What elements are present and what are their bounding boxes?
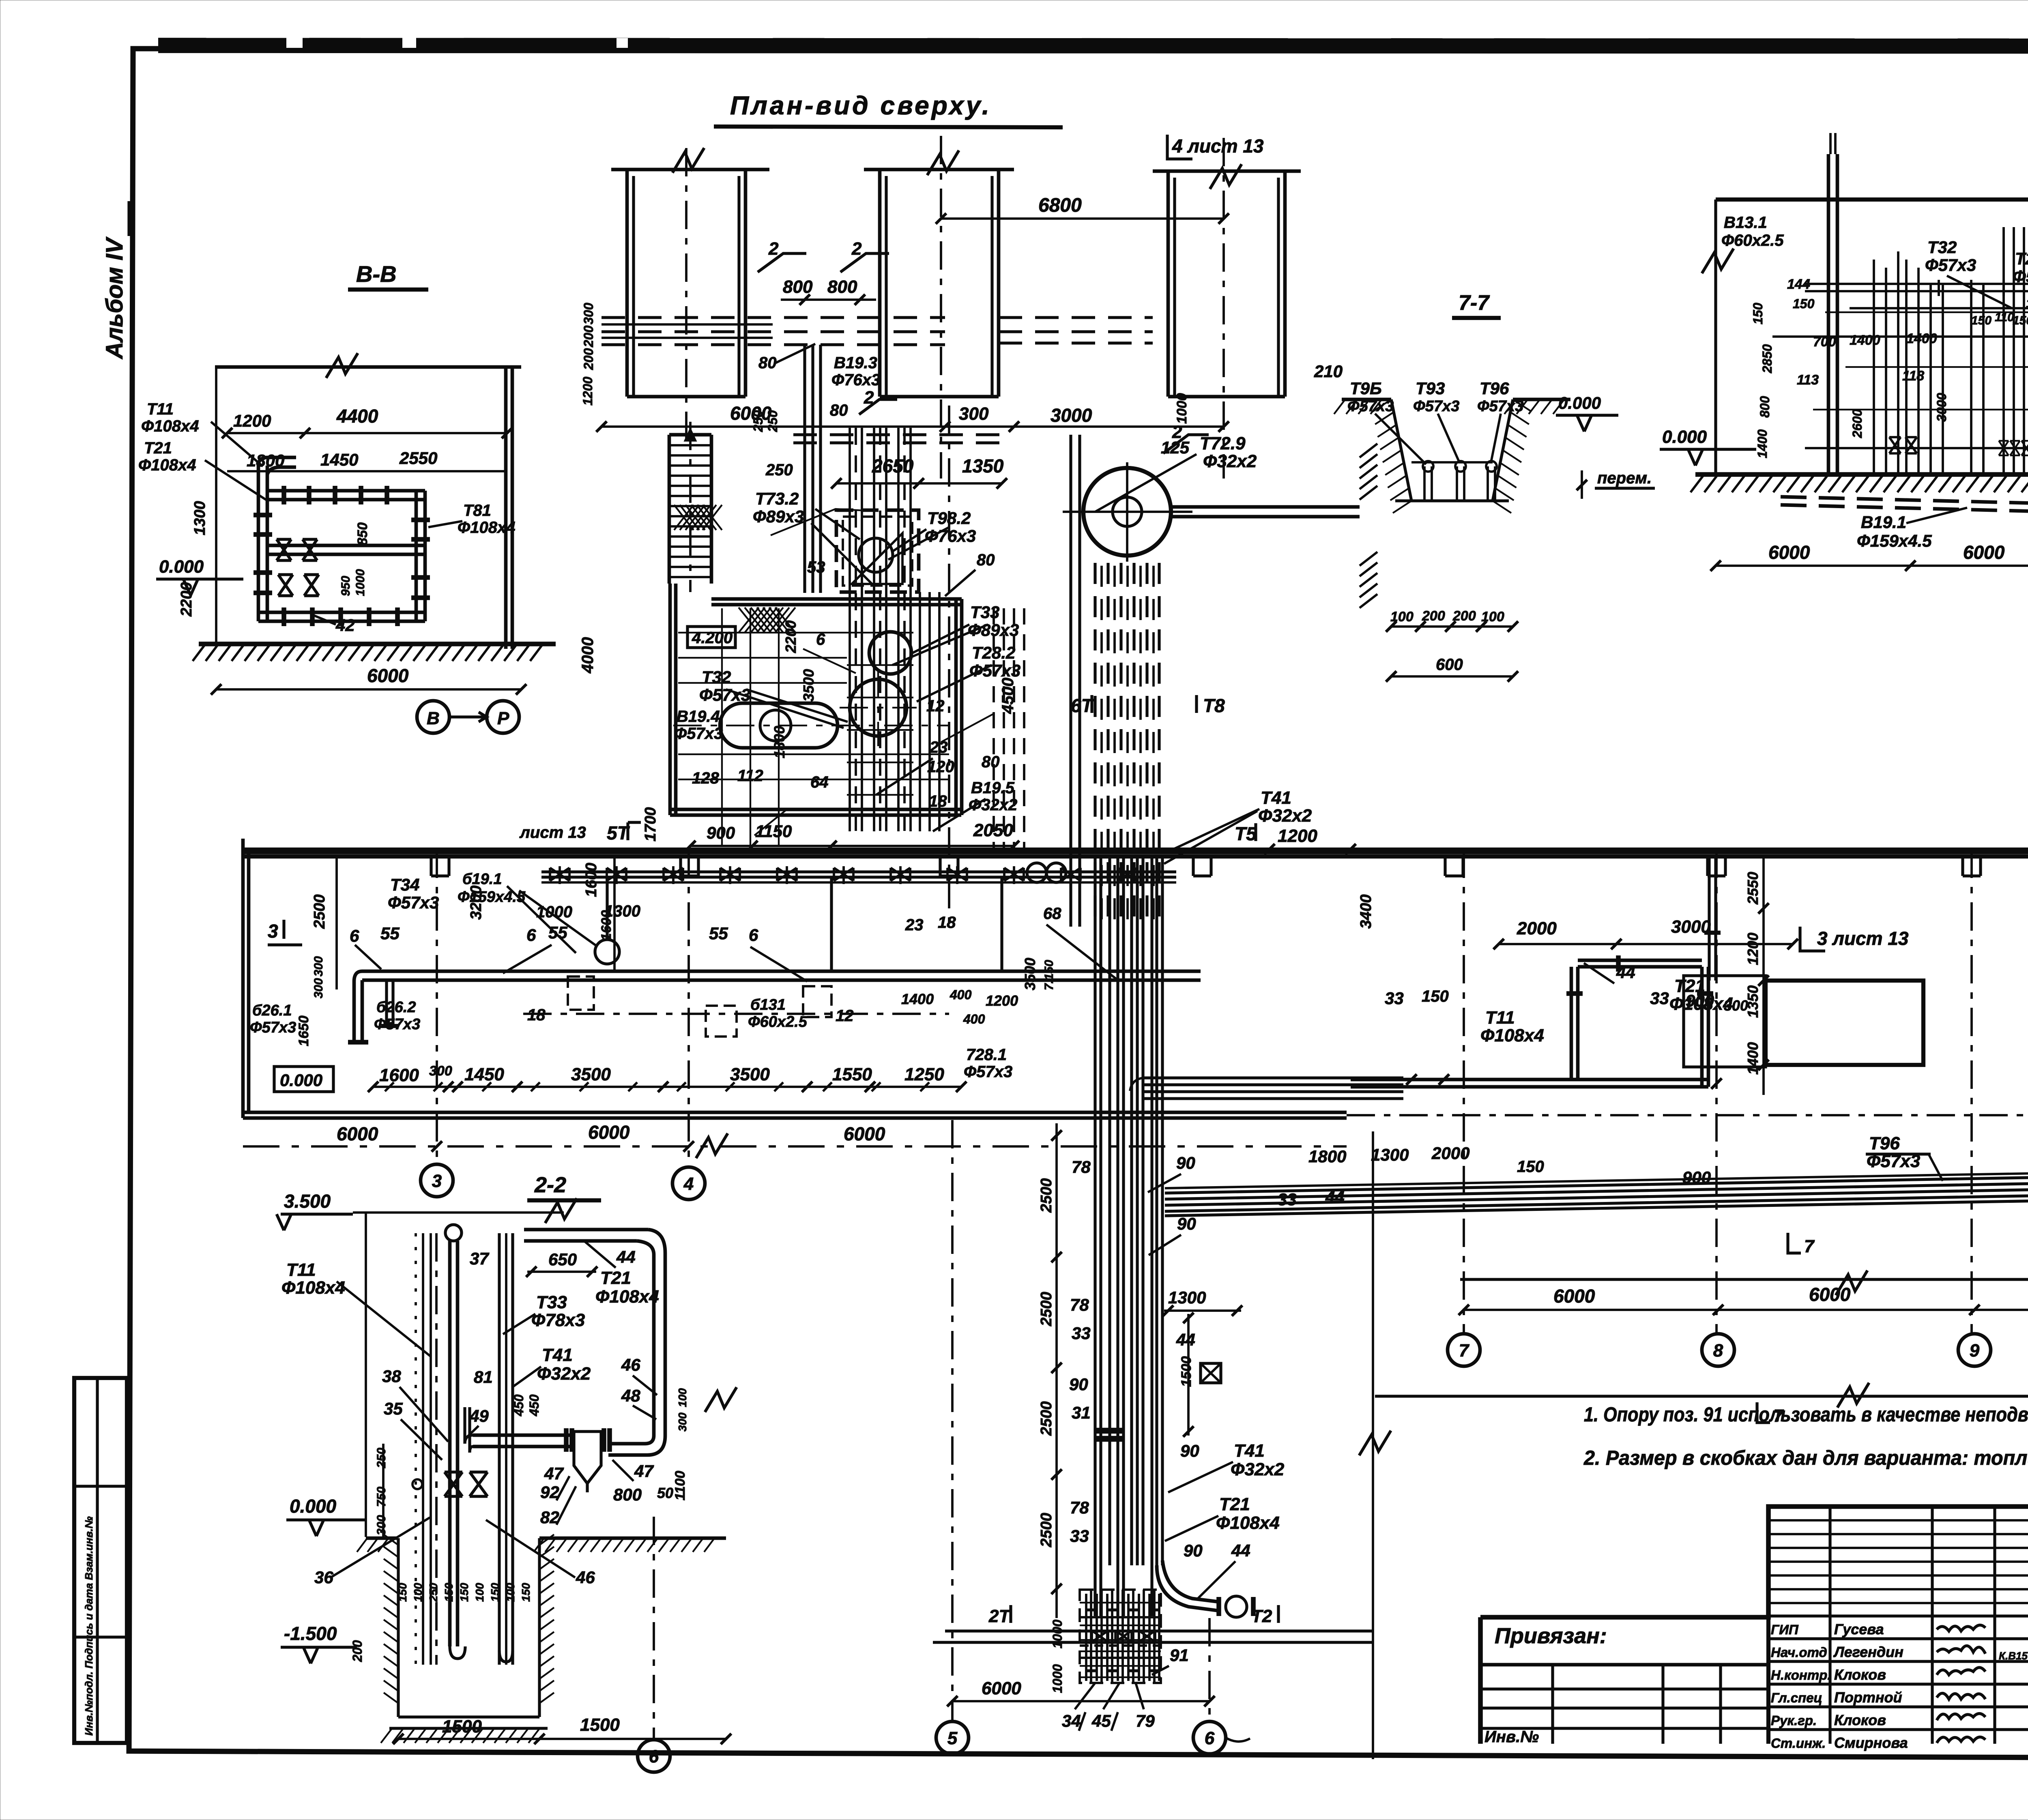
wing bundle extra line 2: [1165, 1171, 2028, 1188]
s22 T41 leader: [513, 1367, 541, 1387]
svg-text:150: 150: [396, 1583, 409, 1602]
svg-text:Т34: Т34: [390, 875, 419, 894]
svg-text:Портной: Портной: [1834, 1689, 1902, 1706]
pipe loop left riser a: [1570, 967, 1573, 1081]
valve band valves: [550, 868, 569, 881]
svg-text:Нач.отд: Нач.отд: [1771, 1645, 1827, 1660]
svg-text:1000: 1000: [1050, 1620, 1065, 1648]
section B-B label underline: [348, 288, 428, 292]
axis A1 break: [672, 148, 704, 173]
bb leader scrawl 3: [941, 714, 994, 742]
svg-text:В19.4: В19.4: [677, 708, 720, 725]
column marks on wall: [431, 856, 449, 876]
svg-text:33: 33: [1650, 989, 1669, 1008]
svg-text:0.000: 0.000: [290, 1496, 337, 1517]
svg-text:Ф159х4.5: Ф159х4.5: [1857, 531, 1932, 550]
axis B dashdot: [1347, 1114, 2028, 1116]
s11 extra verticals: [1905, 260, 1908, 474]
svg-text:Т72.9: Т72.9: [1200, 434, 1246, 453]
s77 dim ticks: [1386, 621, 1396, 632]
svg-text:6: 6: [526, 925, 536, 944]
B-B dim tick c: [502, 428, 512, 438]
svg-text:300: 300: [312, 956, 325, 977]
bb leader scrawl 1: [771, 509, 872, 535]
svg-text:К.В15: К.В15: [1999, 1650, 2028, 1662]
svg-text:В19.3: В19.3: [834, 354, 877, 372]
bb ext vline3: [778, 608, 780, 846]
svg-text:12: 12: [836, 1007, 854, 1025]
svg-text:В13.1: В13.1: [1724, 214, 1767, 232]
svg-text:1550: 1550: [832, 1065, 872, 1084]
s77 pipe stub 1: [1423, 466, 1426, 500]
svg-text:1350: 1350: [962, 455, 1004, 476]
leader 91: [1152, 1666, 1169, 1675]
axis arrow between circles: [449, 712, 487, 722]
s22 pit left hatch: [384, 1535, 398, 1545]
s77 level tick: [1581, 470, 1583, 499]
svg-text:Ф57х3: Ф57х3: [674, 725, 723, 743]
B-B bottom dim ticks: [211, 684, 221, 695]
svg-text:150: 150: [2013, 314, 2028, 327]
bb ext vline2: [750, 608, 751, 846]
svg-text:850: 850: [355, 522, 370, 545]
svg-text:Ф159х4.5: Ф159х4.5: [458, 889, 526, 906]
svg-text:113: 113: [1797, 372, 1819, 388]
wing t21 riser from wall: [1708, 856, 1710, 981]
long leader 6: [933, 799, 986, 831]
svg-text:48: 48: [621, 1386, 640, 1405]
top border thick band: [158, 45, 2028, 46]
svg-text:Т33: Т33: [536, 1292, 567, 1312]
svg-text:Ф108х4: Ф108х4: [595, 1287, 659, 1307]
top band gap 1: [286, 37, 303, 48]
svg-text:80: 80: [982, 753, 1000, 771]
svg-text:Т5: Т5: [1235, 823, 1257, 844]
s11 inner pipes: [1873, 260, 1875, 474]
svg-text:Ф57х3: Ф57х3: [1477, 398, 1523, 415]
axis line A2: [940, 136, 942, 479]
section 2-2 underline: [527, 1198, 601, 1202]
svg-text:1. Опору поз. 91 использовать: 1. Опору поз. 91 использовать в качестве…: [1584, 1403, 2028, 1426]
B-B left extension line: [215, 367, 217, 643]
s22 filter vessel: [574, 1432, 601, 1483]
svg-text:1650: 1650: [296, 1015, 312, 1046]
sig grid vline 3: [1993, 1507, 1996, 1744]
room left wall inner: [674, 584, 678, 815]
svg-text:44: 44: [1616, 963, 1635, 982]
s22 pit bottom line2: [389, 1727, 548, 1730]
svg-text:Р: Р: [497, 708, 509, 728]
long leader 8: [1164, 811, 1257, 864]
svg-text:3: 3: [268, 921, 278, 942]
svg-text:Т28.2: Т28.2: [2015, 249, 2028, 268]
grid circle 5: [936, 1721, 969, 1754]
T73.2 leader: [815, 509, 860, 539]
svg-text:1200: 1200: [1744, 933, 1761, 965]
deaer bundle extra dashed: [1100, 566, 1103, 925]
svg-text:2000: 2000: [1431, 1144, 1469, 1163]
axis A3 break: [1210, 164, 1242, 189]
s22 bottom ticks: [393, 1734, 404, 1744]
svg-text:35: 35: [384, 1399, 403, 1418]
crosshatch patch 2: [739, 607, 759, 633]
svg-text:800: 800: [1757, 396, 1772, 418]
svg-text:300: 300: [375, 1515, 388, 1535]
label T11 leader: [211, 422, 263, 466]
svg-text:б131: б131: [750, 996, 786, 1013]
b19.1 leader: [519, 891, 596, 946]
pipe loop top a: [1578, 959, 1702, 962]
svg-text:81: 81: [474, 1367, 493, 1386]
grid circle 4: [672, 1167, 705, 1200]
svg-text:400: 400: [963, 1012, 985, 1026]
left margin table row line 1: [74, 1485, 127, 1487]
svg-text:1450: 1450: [320, 450, 358, 469]
svg-text:90: 90: [1180, 1441, 1199, 1460]
valve band pipe b: [541, 876, 1176, 878]
manifold inner dash: [1080, 1644, 1161, 1647]
s22 dim line 650: [527, 1271, 596, 1273]
B-B top line break: [326, 353, 358, 378]
privyazan col 1: [1551, 1665, 1554, 1744]
bb extra flanges: [847, 632, 913, 633]
svg-text:4: 4: [683, 1174, 694, 1194]
column footing 1 right wall: [744, 170, 748, 397]
leader 6a: [355, 945, 381, 969]
manifold cross a: [1080, 1616, 1161, 1618]
svg-text:2000: 2000: [1517, 919, 1557, 938]
manifold ladder: [1080, 1602, 1161, 1603]
svg-text:2200: 2200: [782, 620, 799, 653]
svg-text:2650: 2650: [872, 455, 914, 476]
svg-text:1250: 1250: [904, 1065, 944, 1084]
svg-text:9: 9: [1970, 1341, 1980, 1361]
svg-text:Инв.№подл. Подпись и дата Вз: Инв.№подл. Подпись и дата Взам.инв.№: [83, 1516, 95, 1736]
column footing 2 right wall: [997, 170, 1001, 397]
room top wall inner: [711, 603, 962, 607]
pipe loop right riser a: [1700, 967, 1704, 1087]
svg-text:80: 80: [830, 401, 848, 419]
svg-text:68: 68: [1043, 905, 1061, 923]
svg-text:6000: 6000: [1809, 1284, 1851, 1305]
dashed pipe row 1: [602, 316, 945, 319]
svg-text:1400: 1400: [901, 991, 934, 1007]
support square run: [1201, 1363, 1221, 1383]
svg-text:6000: 6000: [337, 1123, 378, 1144]
svg-text:450: 450: [511, 1394, 526, 1417]
svg-text:150: 150: [1517, 1158, 1544, 1176]
stair rungs: [669, 444, 711, 446]
bend flange b: [1251, 1597, 1256, 1616]
wall hatch right a: [1360, 444, 1377, 457]
svg-text:Ф108х4: Ф108х4: [281, 1278, 345, 1298]
svg-text:6000: 6000: [588, 1122, 630, 1143]
svg-text:300: 300: [312, 978, 325, 998]
svg-text:7.150: 7.150: [1042, 960, 1056, 990]
svg-text:Смирнова: Смирнова: [1834, 1734, 1908, 1751]
svg-text:лист 13: лист 13: [519, 824, 586, 841]
svg-text:3: 3: [432, 1171, 442, 1191]
right wing lower boundary: [1375, 1395, 2028, 1397]
flag 2 fourth: [1163, 435, 1209, 453]
band break mark: [696, 1133, 728, 1158]
grid tick 4: [683, 1141, 694, 1152]
axis 3 line: [436, 850, 438, 1164]
axis 8 line: [1715, 850, 1718, 1334]
s22 level underline: [281, 1213, 353, 1215]
svg-text:1400: 1400: [1744, 1042, 1761, 1075]
svg-text:4400: 4400: [336, 406, 378, 427]
s77 slope hatch left: [1373, 399, 1391, 412]
s22 left ext line: [365, 1213, 367, 1537]
s22 leaders 38 35: [400, 1387, 448, 1460]
wing dim line top: [1499, 943, 1793, 945]
s22 pipe verticals: [415, 1233, 417, 1665]
privyazan row line 2: [1480, 1687, 1768, 1690]
svg-text:1500: 1500: [580, 1715, 620, 1735]
svg-text:950: 950: [339, 576, 352, 596]
s22 break mark right: [705, 1387, 737, 1412]
s22 T33 leader: [503, 1314, 535, 1334]
left margin table divider: [96, 1378, 99, 1743]
wing dim vline ticks: [1758, 903, 1769, 914]
main top wall outer: [243, 848, 2028, 852]
s22 bottom dim line: [398, 1738, 726, 1740]
dim 800 line: [781, 298, 876, 301]
room bottom wall outer: [670, 808, 961, 811]
grid circle 9: [1958, 1334, 1991, 1366]
svg-text:2: 2: [768, 239, 779, 259]
loop flange 2: [1697, 991, 1713, 996]
run extra verticals: [1108, 858, 1111, 1565]
label 42 leader: [312, 615, 336, 625]
svg-text:Ф89х3: Ф89х3: [753, 507, 804, 526]
flange marks right riser: [411, 517, 430, 522]
pipe loop top b: [1578, 965, 1702, 969]
svg-text:5: 5: [947, 1728, 958, 1748]
svg-text:Ф108х4: Ф108х4: [1480, 1026, 1544, 1045]
leader 6c: [750, 947, 807, 981]
svg-text:0.000: 0.000: [1558, 393, 1601, 412]
s11 clutter h lines: [1825, 311, 2028, 313]
svg-text:б19.1: б19.1: [462, 871, 502, 888]
s77 inner ledge: [1411, 461, 1493, 464]
s11 extra horizontals: [1850, 307, 2028, 309]
svg-text:Ф32х2: Ф32х2: [537, 1364, 591, 1384]
tick group wing: [1406, 1074, 1417, 1085]
svg-text:150: 150: [1422, 987, 1449, 1005]
dim 6800 line: [941, 217, 1224, 220]
deaerator axis v: [1126, 462, 1128, 562]
solid riser pair a: [1069, 435, 1072, 927]
svg-text:125: 125: [1161, 438, 1190, 457]
axis A2 break: [927, 150, 959, 175]
bb ext vline1: [721, 608, 723, 846]
svg-text:Ф108х4: Ф108х4: [138, 456, 196, 474]
s22 floor hatch right: [534, 1539, 544, 1552]
s11 chimney 1: [1827, 154, 1830, 474]
B-B level line: [156, 577, 243, 580]
left margin table row line 2: [74, 1635, 127, 1638]
level box 4.200: [687, 627, 735, 648]
svg-text:3500: 3500: [800, 669, 817, 702]
svg-text:В: В: [427, 708, 440, 728]
svg-text:900: 900: [707, 823, 735, 842]
s77 top line right: [1513, 398, 1570, 401]
svg-text:В19.1: В19.1: [1861, 513, 1906, 532]
svg-text:80: 80: [977, 551, 995, 569]
svg-text:Т21: Т21: [1219, 1494, 1250, 1514]
svg-text:Инв.№: Инв.№: [1484, 1728, 1539, 1746]
column footing 1 roof line: [611, 168, 769, 172]
svg-text:Ф57х3: Ф57х3: [1925, 255, 1976, 275]
svg-text:150: 150: [1793, 296, 1815, 311]
svg-text:47: 47: [634, 1462, 654, 1481]
s22 pit bottom hatch: [381, 1729, 391, 1743]
svg-text:2600: 2600: [1850, 409, 1865, 438]
valve on mid run 1: [277, 539, 291, 560]
svg-text:42: 42: [335, 616, 355, 635]
svg-text:144: 144: [1787, 277, 1810, 292]
B-B top line: [215, 365, 521, 369]
s22 mid pipe: [473, 1434, 574, 1437]
svg-text:78: 78: [1070, 1295, 1089, 1314]
svg-text:2-2: 2-2: [534, 1173, 566, 1197]
axis 5 line: [951, 1120, 954, 1721]
s22 floor left: [366, 1537, 398, 1540]
axis circle V: [417, 701, 449, 733]
run dim chain: [1055, 1123, 1058, 1618]
sig grid vline 2: [1931, 1507, 1933, 1744]
room right wall outer: [954, 599, 958, 815]
privyazan row line 4: [1480, 1727, 1768, 1730]
dim chain ticks: [368, 1082, 378, 1092]
T21 run leader: [1165, 1516, 1218, 1541]
wing dim ticks: [1459, 1305, 1469, 1315]
svg-text:250: 250: [765, 410, 780, 432]
flange marks left riser: [253, 513, 272, 517]
svg-text:1300: 1300: [191, 501, 208, 535]
svg-text:6000: 6000: [1553, 1286, 1595, 1307]
s77 dim line: [1391, 625, 1513, 628]
section line 2 vertical: [1372, 1131, 1374, 1759]
svg-text:6: 6: [749, 925, 758, 944]
privyazan row line 3: [1480, 1706, 1768, 1709]
svg-text:1400: 1400: [1850, 333, 1880, 348]
s22 level -1.5 line: [281, 1646, 357, 1648]
svg-text:Т21: Т21: [144, 439, 172, 457]
wall hatch right b: [1360, 552, 1377, 566]
flag 2 second: [840, 253, 889, 272]
dashed pipe row 2: [602, 330, 945, 333]
svg-text:2850: 2850: [1760, 344, 1774, 373]
stair top: [669, 433, 711, 437]
s22 leader 49: [466, 1426, 479, 1438]
s22 T21 riser: [652, 1255, 656, 1436]
svg-text:Т41: Т41: [1234, 1441, 1265, 1461]
svg-text:2500: 2500: [311, 894, 328, 929]
label T81 leader: [428, 521, 462, 527]
dim line mid: [945, 425, 1224, 428]
svg-text:1600: 1600: [583, 863, 600, 897]
svg-text:1700: 1700: [642, 807, 659, 841]
grid circle 3: [421, 1164, 453, 1197]
left dim vline: [335, 856, 338, 989]
svg-text:46: 46: [576, 1568, 595, 1587]
sig grid fine rows: [1768, 1519, 2028, 1522]
svg-text:Легендин: Легендин: [1833, 1644, 1903, 1660]
svg-text:Ф57х3: Ф57х3: [2013, 267, 2028, 286]
svg-text:600: 600: [1436, 656, 1463, 674]
pipe mid horizontal run: [267, 544, 425, 547]
axis line A1: [685, 148, 687, 444]
band drop b: [1000, 877, 1003, 971]
grid circle 8: [1702, 1334, 1734, 1366]
s22 elbow risers: [463, 1407, 466, 1444]
svg-text:49: 49: [469, 1406, 489, 1425]
svg-text:Т11: Т11: [147, 400, 174, 418]
column footing 2 roof line: [864, 168, 1014, 172]
wing dim vline: [1762, 856, 1765, 1095]
svg-text:Т33: Т33: [970, 603, 999, 622]
s22 T21 lower elbow: [608, 1436, 665, 1455]
svg-text:б26.2: б26.2: [376, 999, 416, 1016]
svg-text:Ст.инж.: Ст.инж.: [1771, 1736, 1826, 1751]
svg-text:Ф32х2: Ф32х2: [1231, 1459, 1285, 1479]
T96 underline: [1866, 1153, 1931, 1155]
dim line room bottom: [690, 845, 1014, 847]
s22 level 0 line: [286, 1518, 365, 1521]
privyazan col 2: [1661, 1665, 1664, 1744]
sec22 extra pipe lines: [422, 1233, 424, 1665]
svg-text:Клоков: Клоков: [1834, 1666, 1886, 1683]
svg-text:1000: 1000: [354, 569, 367, 596]
svg-text:250: 250: [375, 1448, 388, 1468]
svg-text:1000: 1000: [1174, 393, 1190, 424]
svg-text:91: 91: [1170, 1646, 1189, 1665]
long leader 5: [726, 689, 844, 728]
svg-text:7-7: 7-7: [1459, 291, 1490, 315]
svg-text:Т11: Т11: [1485, 1008, 1515, 1028]
equipment circle 2 axis h: [840, 707, 917, 708]
pipe right riser: [415, 491, 418, 621]
s77 pipe stub 3: [1487, 466, 1489, 500]
svg-text:1400: 1400: [1906, 331, 1937, 346]
B-B level arrow: [183, 579, 198, 595]
svg-text:Гл.спец: Гл.спец: [1771, 1690, 1822, 1705]
svg-text:8: 8: [1713, 1341, 1723, 1361]
L-pipe horizontal b: [362, 979, 1201, 982]
s22 grid circle 6: [638, 1740, 670, 1772]
sep slashes: [1079, 1712, 1085, 1731]
wing bundle extra line: [1165, 1199, 2028, 1216]
svg-text:4000: 4000: [579, 637, 597, 674]
s22 T21 elbow: [648, 1230, 665, 1253]
s11 bottom dim line: [1716, 564, 2028, 567]
svg-text:Т93: Т93: [1416, 379, 1445, 398]
s22 gate valve 1: [445, 1472, 462, 1496]
manifold valves: [1092, 1631, 1108, 1642]
long leader 4: [917, 665, 992, 702]
svg-text:1500: 1500: [1179, 1356, 1194, 1387]
s77 top line left: [1342, 398, 1391, 401]
left gable wall inner: [247, 850, 251, 1112]
svg-text:150: 150: [458, 1583, 470, 1602]
s22 dim line left vertical: [382, 1444, 385, 1538]
titleblock outline top: [1480, 1507, 2028, 1617]
svg-text:Ф60х2.5: Ф60х2.5: [1721, 232, 1784, 249]
s22 pit right hatch: [539, 1535, 554, 1545]
